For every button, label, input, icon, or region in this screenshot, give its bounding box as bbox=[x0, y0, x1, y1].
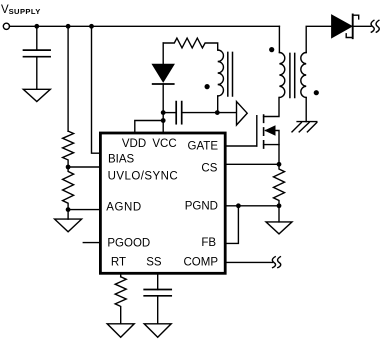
node junction rail-Cin bbox=[34, 24, 39, 29]
wire BIAS pin bbox=[92, 26, 101, 153]
input terminal bbox=[3, 23, 9, 29]
capacitor C-VCC bbox=[163, 102, 217, 124]
resistor R-RT bbox=[115, 277, 126, 324]
ground divider bbox=[55, 219, 82, 232]
ground CS resistor bbox=[266, 222, 292, 234]
transformer core bias bbox=[228, 52, 233, 96]
resistor R-UVLO-bottom bbox=[63, 167, 74, 210]
node junction CS-source bbox=[277, 162, 282, 167]
node junction AGND bbox=[66, 207, 71, 212]
transistor Q1 MOSFET bbox=[257, 98, 279, 165]
driver arrow triangle bbox=[237, 102, 248, 126]
ground chassis secondary bbox=[292, 122, 317, 132]
svg-text:AGND: AGND bbox=[106, 202, 142, 214]
transformer T1 secondary bbox=[301, 26, 332, 121]
node phase dot secondary bbox=[314, 90, 319, 95]
transformer T1 primary bbox=[279, 26, 284, 97]
svg-text:RT: RT bbox=[111, 257, 126, 269]
node junction FB tap bbox=[236, 203, 241, 208]
svg-text:SUPPLY: SUPPLY bbox=[9, 7, 41, 16]
inductor bias winding bbox=[218, 50, 224, 113]
wire GATE pin bbox=[225, 145, 257, 147]
node phase dot primary bbox=[269, 47, 274, 52]
capacitor C-SS bbox=[144, 290, 171, 324]
diode D-OUT schottky bbox=[332, 15, 371, 39]
resistor R-snubber bbox=[163, 38, 218, 50]
node junction VCC-VDD bbox=[161, 118, 166, 123]
wire rail to R-UVLO-top bbox=[67, 26, 69, 131]
transformer T1 core bbox=[290, 53, 295, 97]
svg-text:CS: CS bbox=[201, 163, 217, 175]
wire PGND pin bbox=[225, 205, 279, 207]
node junction bias winding bottom bbox=[215, 110, 220, 115]
svg-text:PGOOD: PGOOD bbox=[107, 237, 150, 249]
wire break squiggle output bbox=[371, 20, 379, 32]
svg-text:COMP: COMP bbox=[184, 257, 219, 269]
resistor R-CS bbox=[274, 164, 285, 206]
node VSUPPLY label bbox=[1, 4, 41, 16]
wire CS pin bbox=[225, 163, 279, 165]
wire to CS ground bbox=[278, 206, 280, 222]
wire COMP pin bbox=[225, 261, 272, 263]
node phase dot bias winding bbox=[205, 84, 210, 89]
wire SS pin bbox=[157, 273, 159, 289]
wire FB pin bbox=[225, 206, 238, 244]
svg-text:PGND: PGND bbox=[185, 201, 218, 213]
diode D-BIAS bbox=[153, 43, 174, 132]
node junction CS resistor bottom bbox=[277, 203, 282, 208]
resistor R-UVLO-top bbox=[63, 131, 74, 167]
svg-text:UVLO/SYNC: UVLO/SYNC bbox=[108, 170, 179, 182]
wire AGND pin bbox=[68, 209, 100, 211]
svg-text:SS: SS bbox=[146, 257, 162, 269]
svg-text:BIAS: BIAS bbox=[108, 153, 135, 165]
capacitor CIN bbox=[24, 26, 51, 89]
wire VDD pin jog bbox=[135, 121, 163, 133]
wire PGOOD pin stub bbox=[83, 242, 100, 244]
node junction rail-Ruv bbox=[66, 24, 71, 29]
IC U1 box bbox=[100, 133, 225, 273]
svg-text:VCC: VCC bbox=[152, 138, 176, 150]
node junction UVLO divider bbox=[66, 165, 71, 170]
node junction VCC-cap bbox=[161, 110, 166, 115]
node junction rail-BIAS bbox=[89, 24, 94, 29]
ground RT bbox=[107, 324, 134, 338]
wire break squiggle COMP bbox=[272, 257, 280, 268]
wire to divider ground bbox=[67, 210, 69, 220]
wire UVLO/SYNC pin bbox=[68, 166, 100, 168]
wire RT pin bbox=[120, 273, 122, 277]
wire supply rail bbox=[10, 25, 280, 27]
wire to driver arrow bbox=[217, 112, 236, 114]
ground CIN bbox=[23, 89, 50, 101]
ground SS bbox=[144, 324, 171, 338]
svg-text:VDD: VDD bbox=[122, 138, 146, 150]
svg-text:FB: FB bbox=[201, 237, 216, 249]
svg-text:GATE: GATE bbox=[188, 141, 219, 153]
